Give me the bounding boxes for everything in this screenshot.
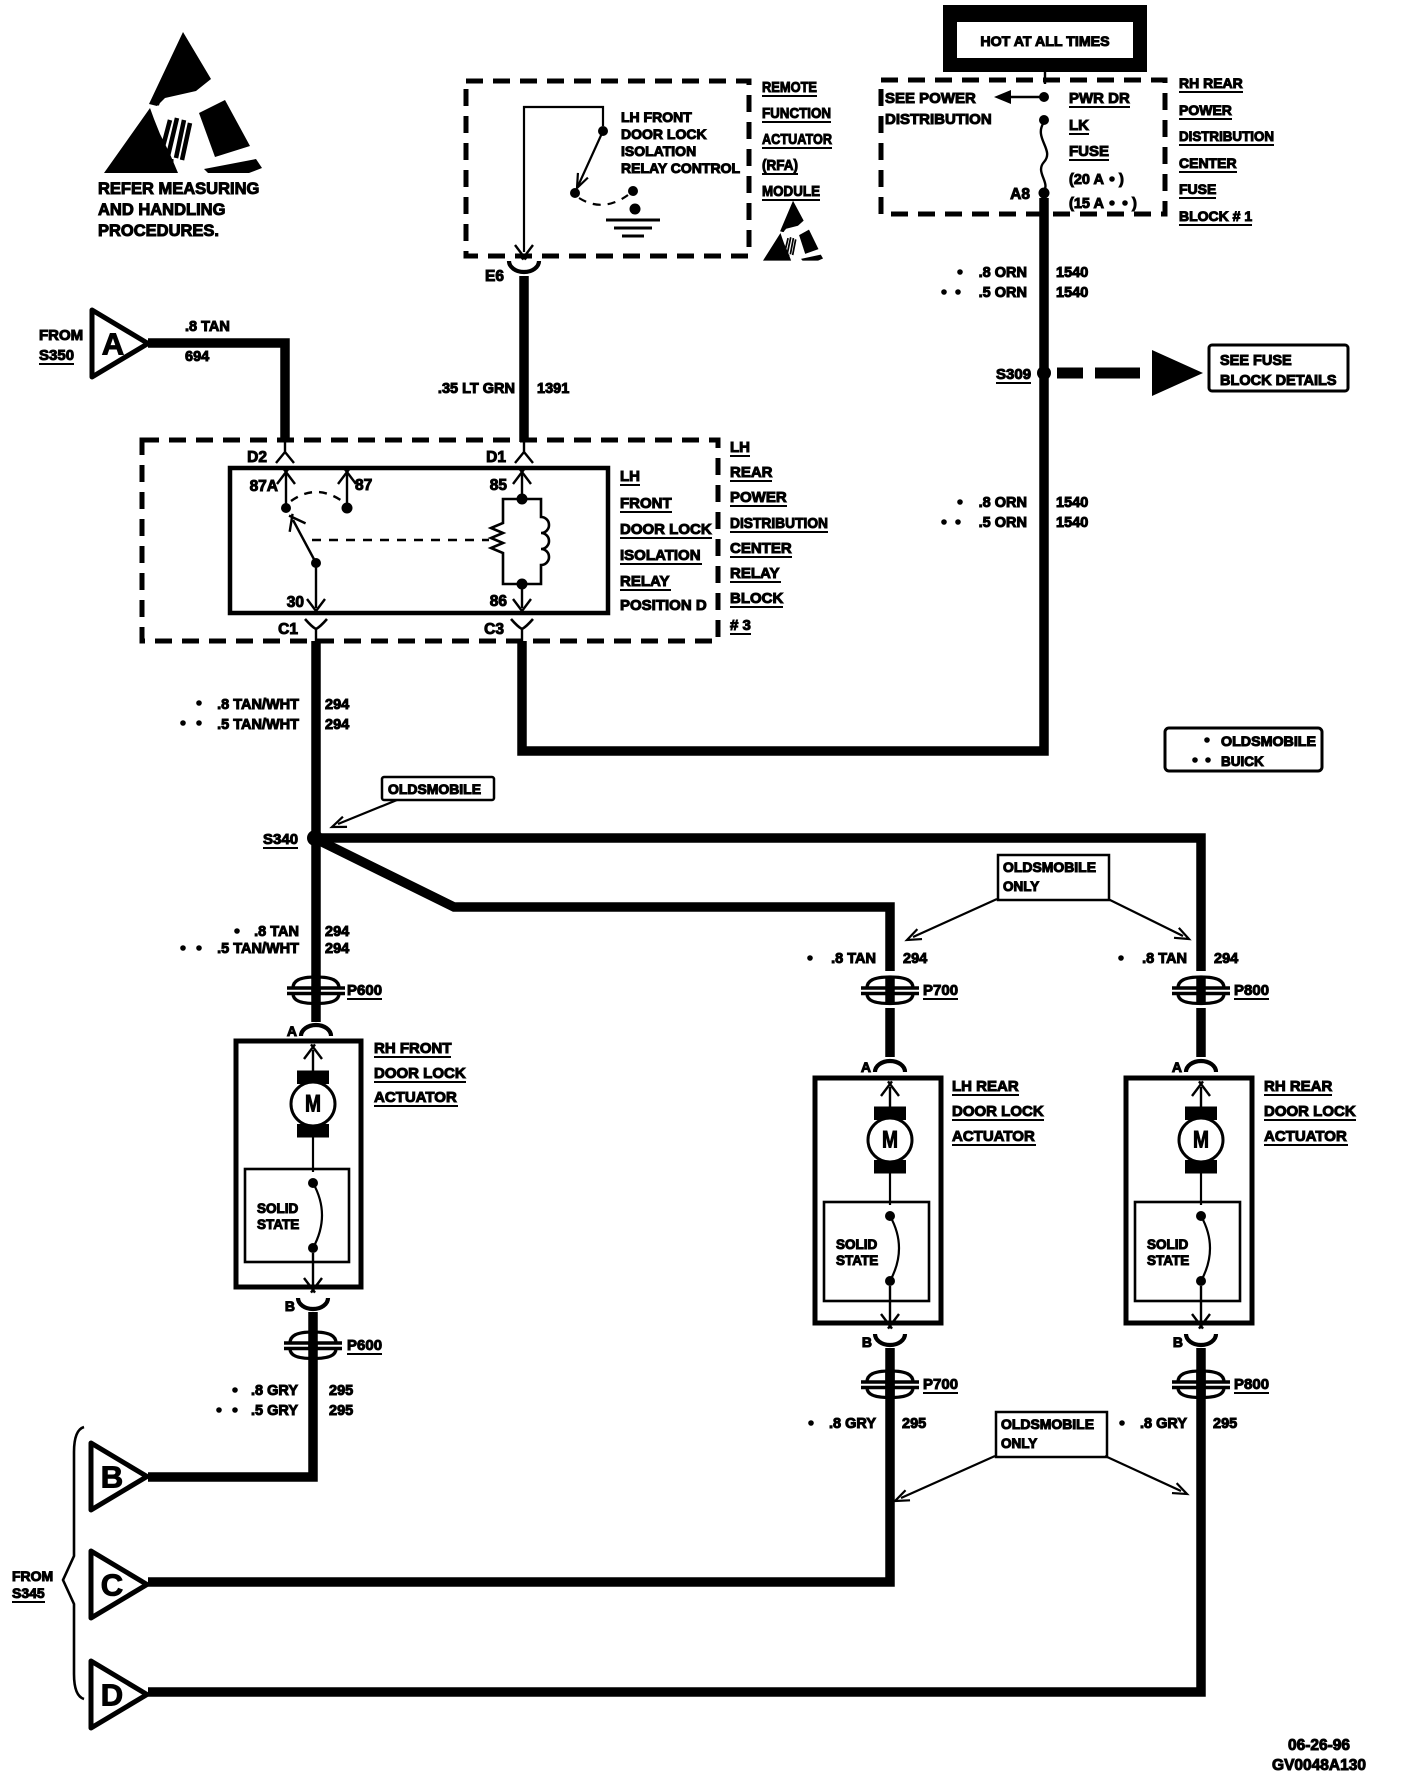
svg-text:BUICK: BUICK (1221, 754, 1264, 769)
svg-text:FRONT: FRONT (620, 495, 672, 512)
svg-text:.8 TAN/WHT: .8 TAN/WHT (217, 697, 299, 713)
RH rear door lock actuator box (1126, 1078, 1252, 1323)
svg-text:(15 A: (15 A (1069, 196, 1104, 212)
svg-text:295: 295 (902, 1416, 926, 1432)
pin C1 cup (305, 619, 327, 629)
svg-text:PROCEDURES.: PROCEDURES. (98, 222, 219, 240)
svg-text:DOOR LOCK: DOOR LOCK (1264, 1103, 1356, 1120)
wire motor to solid state (312, 1136, 314, 1172)
svg-text:.5 GRY: .5 GRY (251, 1403, 298, 1419)
svg-text:30: 30 (287, 594, 304, 611)
svg-text:P600: P600 (347, 1337, 382, 1354)
connector P800 (upper) (1172, 977, 1230, 1004)
svg-text:PWR DR: PWR DR (1069, 90, 1130, 107)
svg-text:1540: 1540 (1056, 285, 1088, 301)
svg-text:RH REAR: RH REAR (1264, 1078, 1333, 1095)
svg-text:): ) (1119, 172, 1124, 188)
connector P700 (upper) (861, 977, 919, 1004)
pin A arrow (LH rear) (889, 1087, 891, 1107)
svg-text:SOLID: SOLID (1147, 1237, 1189, 1252)
svg-text:B: B (1173, 1334, 1183, 1350)
svg-text:.5 ORN: .5 ORN (979, 515, 1027, 531)
svg-text:ONLY: ONLY (1003, 879, 1039, 894)
svg-text:C1: C1 (278, 621, 298, 638)
value labels .8 TAN 294 (below S340) (234, 928, 240, 934)
svg-text:.5 ORN: .5 ORN (979, 285, 1027, 301)
solid state box (RH front) (245, 1169, 349, 1262)
connector E6 arrowhead (515, 245, 533, 260)
svg-text:ACTUATOR: ACTUATOR (1264, 1128, 1347, 1145)
wire B to P600 lower to connector B (.8 GRY 295) (148, 1312, 313, 1477)
RFA dashed link curve (579, 195, 628, 205)
svg-text:ACTUATOR: ACTUATOR (374, 1089, 457, 1106)
contact dot 87A (281, 503, 291, 513)
svg-text:SOLID: SOLID (257, 1201, 299, 1216)
svg-text:.8 ORN: .8 ORN (979, 495, 1027, 511)
wire A to relay pin D2 (.8 TAN 694) (148, 343, 285, 442)
connector D triangle (91, 1661, 147, 1728)
svg-text:S340: S340 (263, 831, 298, 848)
svg-text:.8 TAN: .8 TAN (1142, 951, 1187, 967)
svg-text:P800: P800 (1234, 1376, 1269, 1393)
svg-text:M: M (882, 1127, 898, 1154)
svg-text:ISOLATION: ISOLATION (621, 143, 696, 159)
relay block dashed box (142, 440, 718, 641)
svg-text:86: 86 (490, 593, 508, 610)
svg-text:SEE FUSE: SEE FUSE (1220, 353, 1292, 369)
relay coil (517, 494, 528, 505)
svg-text:LH FRONT: LH FRONT (621, 109, 692, 125)
value label .8 TAN 294 (RH rear) (1118, 955, 1124, 961)
solid state box (LH rear) (824, 1202, 929, 1301)
callout arrows (upper) (913, 899, 997, 937)
wire RH rear B to connector D (148, 1348, 1201, 1692)
RFA switch contact dot (top) (598, 126, 608, 136)
dashed mechanical link (312, 539, 489, 541)
wire S340 branch to P800/RH rear (294) (315, 838, 1201, 971)
svg-text:1540: 1540 (1056, 515, 1088, 531)
svg-text:A: A (287, 1023, 297, 1039)
svg-text:LH REAR: LH REAR (952, 1078, 1019, 1095)
svg-text:M: M (305, 1091, 321, 1118)
node dot (tap) (1039, 92, 1049, 102)
svg-text:.8 TAN: .8 TAN (185, 319, 230, 335)
svg-text:E6: E6 (485, 268, 504, 285)
svg-text:295: 295 (1213, 1416, 1237, 1432)
value labels .8 TAN/WHT 294 (196, 700, 202, 706)
svg-text:REAR: REAR (730, 464, 773, 481)
connector P800 (lower) (1172, 1371, 1230, 1398)
connector P600 (upper) (287, 977, 345, 1004)
svg-text:POWER: POWER (1179, 102, 1232, 118)
svg-text:295: 295 (329, 1403, 353, 1419)
svg-text:FROM: FROM (12, 1568, 53, 1584)
svg-text:.8 TAN: .8 TAN (254, 924, 299, 940)
relay solid box (LH front door lock isolation relay) (230, 468, 608, 613)
svg-text:S309: S309 (996, 366, 1031, 383)
svg-text:REFER MEASURING: REFER MEASURING (98, 180, 259, 198)
value label .8 GRY 295 (RH rear) (1119, 1420, 1125, 1426)
svg-text:.8 ORN: .8 ORN (979, 265, 1027, 281)
svg-text:DOOR LOCK: DOOR LOCK (620, 521, 712, 538)
svg-text:C: C (101, 1568, 123, 1603)
pin B arrow (RH front) (312, 1253, 314, 1287)
motor M (RH rear) (1179, 1107, 1223, 1173)
pin A cup (LH rear) (875, 1061, 905, 1072)
svg-text:REMOTE: REMOTE (762, 79, 817, 96)
value labels .8 ORN / .5 ORN 1540 (lower) (957, 499, 963, 505)
svg-text:LH: LH (730, 439, 750, 456)
connector P600 (lower) (284, 1332, 342, 1359)
pin 86 arrow (521, 589, 523, 608)
RFA module dashed box (466, 81, 749, 256)
svg-text:STATE: STATE (1147, 1253, 1189, 1268)
solid state dots and arc (RH rear) (1196, 1211, 1206, 1221)
svg-text:DISTRIBUTION: DISTRIBUTION (1179, 128, 1274, 144)
dashed arrow to fuse block details (1057, 368, 1083, 379)
svg-text:DISTRIBUTION: DISTRIBUTION (885, 111, 992, 128)
solid state box (RH rear) (1135, 1202, 1240, 1301)
OLDSMOBILE ONLY box (lower) (996, 1412, 1107, 1457)
svg-text:C3: C3 (484, 621, 504, 638)
svg-text:P700: P700 (923, 982, 958, 999)
svg-text:HOT AT ALL TIMES: HOT AT ALL TIMES (980, 34, 1109, 50)
node dot (fuse top) (1039, 115, 1049, 125)
solid state dots and arc (LH rear) (885, 1211, 895, 1221)
svg-text:STATE: STATE (257, 1217, 299, 1232)
RH front door lock actuator box (236, 1041, 361, 1287)
contact dot 87 (342, 503, 353, 514)
svg-text:1540: 1540 (1056, 265, 1088, 281)
svg-text:P700: P700 (923, 1376, 958, 1393)
pin D2 (birdfoot) (276, 442, 294, 463)
OLDSMOBILE ONLY box (upper) (998, 855, 1109, 900)
wire S340 diagonal branch to P700/LH rear (294) (318, 840, 890, 971)
ESD warning symbol (hand in triangle) (104, 32, 262, 173)
svg-text:GV0048A130: GV0048A130 (1272, 1757, 1366, 1774)
svg-text:294: 294 (903, 951, 927, 967)
pin B arrow (LH rear) (889, 1286, 891, 1323)
svg-text:.35 LT GRN: .35 LT GRN (438, 381, 515, 397)
legend box OLDSMOBILE / BUICK (1165, 728, 1322, 771)
relay armature (position D) (293, 520, 316, 563)
svg-text:294: 294 (325, 717, 349, 733)
svg-text:295: 295 (329, 1383, 353, 1399)
svg-text:ACTUATOR: ACTUATOR (762, 131, 832, 148)
svg-text:OLDSMOBILE: OLDSMOBILE (1003, 860, 1096, 875)
LH rear door lock actuator box (815, 1078, 941, 1323)
svg-text:DOOR LOCK: DOOR LOCK (621, 126, 707, 142)
svg-text:SEE POWER: SEE POWER (885, 90, 976, 107)
svg-text:D2: D2 (247, 449, 267, 466)
svg-text:# 3: # 3 (730, 617, 751, 634)
svg-text:ONLY: ONLY (1001, 1436, 1037, 1451)
svg-text:.5 TAN/WHT: .5 TAN/WHT (217, 717, 299, 733)
pin 87 arrow (346, 474, 348, 504)
svg-text:AND HANDLING: AND HANDLING (98, 201, 225, 219)
pin 85 arrow (521, 474, 523, 495)
RFA switch armature arrow (578, 131, 603, 186)
wire C1 to S340 to P600 (.8 TAN/WHT 294) (311, 641, 321, 1022)
svg-text:B: B (862, 1334, 872, 1350)
svg-text:294: 294 (325, 697, 349, 713)
fuse PWR DR LK (wavy element) (1041, 122, 1047, 191)
svg-text:RH FRONT: RH FRONT (374, 1040, 452, 1057)
brace (63, 1427, 84, 1699)
svg-text:M: M (1193, 1127, 1209, 1154)
svg-text:SOLID: SOLID (836, 1237, 878, 1252)
pin A8 dot (1039, 188, 1050, 199)
svg-text:1391: 1391 (537, 381, 569, 397)
svg-text:RELAY CONTROL: RELAY CONTROL (621, 160, 740, 176)
pivot to pin 30 (315, 563, 317, 608)
connector B triangle (91, 1443, 147, 1510)
svg-text:.8 TAN: .8 TAN (831, 951, 876, 967)
svg-text:87: 87 (355, 477, 372, 494)
connector A triangle (92, 310, 148, 377)
svg-text:A: A (1172, 1059, 1182, 1075)
HOT AT ALL TIMES banner (943, 5, 1147, 72)
svg-text:LK: LK (1069, 117, 1089, 134)
motor M (RH front) (291, 1071, 335, 1137)
svg-text:CENTER: CENTER (1179, 155, 1237, 171)
box SEE FUSE BLOCK DETAILS (1209, 345, 1348, 391)
svg-text:RELAY: RELAY (620, 573, 669, 590)
svg-text:.8 GRY: .8 GRY (829, 1416, 876, 1432)
splice S309 (1037, 366, 1051, 380)
svg-text:FROM: FROM (39, 327, 83, 344)
svg-text:BLOCK # 1: BLOCK # 1 (1179, 208, 1252, 224)
value labels .8 GRY 295 (232, 1387, 238, 1393)
svg-text:(20 A: (20 A (1069, 172, 1104, 188)
value label .8 GRY 295 (LH rear) (808, 1420, 814, 1426)
pin 87A arrow (285, 474, 287, 504)
pin B cup (RH front) (298, 1298, 328, 1309)
svg-text:OLDSMOBILE: OLDSMOBILE (388, 782, 481, 797)
svg-text:RH REAR: RH REAR (1179, 75, 1243, 91)
armature pivot dot (311, 558, 321, 568)
svg-text:BLOCK DETAILS: BLOCK DETAILS (1220, 373, 1337, 389)
connector E6 cup (509, 261, 539, 272)
dashed position arc 87A-87 (291, 492, 342, 501)
svg-text:694: 694 (185, 349, 209, 365)
svg-text:RELAY: RELAY (730, 565, 779, 582)
wire P800 to actuator A (RH rear) (1196, 1008, 1206, 1057)
svg-text:A8: A8 (1010, 186, 1030, 203)
pin A cup (RH front) (301, 1025, 331, 1036)
svg-text:FUSE: FUSE (1179, 181, 1216, 197)
svg-text:D1: D1 (486, 449, 506, 466)
svg-text:ACTUATOR: ACTUATOR (952, 1128, 1035, 1145)
connector C triangle (91, 1551, 147, 1618)
svg-text:87A: 87A (250, 478, 278, 495)
splice S340 (307, 830, 323, 846)
svg-text:06-26-96: 06-26-96 (1288, 1737, 1350, 1754)
svg-text:(RFA): (RFA) (762, 157, 798, 174)
value label .8 TAN 294 (LH rear) (807, 955, 813, 961)
svg-text:DOOR LOCK: DOOR LOCK (952, 1103, 1044, 1120)
svg-text:S350: S350 (39, 347, 74, 364)
wire A8 to S309 to relay C3 (.8 ORN 1540) (522, 198, 1044, 751)
RH rear power distribution center fuse block dashed box (881, 80, 1165, 214)
pin A arrow (RH front) (312, 1050, 314, 1071)
svg-text:S345: S345 (12, 1585, 45, 1601)
ground (RFA module) (606, 220, 660, 236)
svg-text:POWER: POWER (730, 489, 787, 506)
small ESD symbol (RFA) (763, 201, 823, 261)
svg-text:A: A (102, 327, 124, 362)
svg-text:B: B (101, 1460, 123, 1495)
svg-text:294: 294 (325, 941, 349, 957)
pin A cup (RH rear) (1186, 1061, 1216, 1072)
svg-text:294: 294 (1214, 951, 1238, 967)
pin B cup (LH rear) (875, 1334, 905, 1345)
svg-text:.8 GRY: .8 GRY (1140, 1416, 1187, 1432)
solid state contact dots and arc (308, 1178, 318, 1188)
pin 30 arrow (307, 599, 325, 614)
svg-text:P800: P800 (1234, 982, 1269, 999)
see power tap arrow (1008, 96, 1041, 98)
svg-text:.5 TAN/WHT: .5 TAN/WHT (217, 941, 299, 957)
pin B arrow (RH rear) (1200, 1286, 1202, 1323)
pin D1 (birdfoot) (515, 442, 533, 463)
RFA contact dots near ground (628, 186, 638, 196)
value labels .8 ORN / .5 ORN 1540 (upper) (957, 269, 963, 275)
svg-text:ISOLATION: ISOLATION (620, 547, 701, 564)
OLDSMOBILE callout box (382, 777, 494, 800)
svg-text:CENTER: CENTER (730, 540, 792, 557)
svg-text:294: 294 (325, 924, 349, 940)
connector P700 (lower) (861, 1371, 919, 1398)
OLDSMOBILE callout arrow (338, 800, 397, 824)
svg-text:DOOR LOCK: DOOR LOCK (374, 1065, 466, 1082)
svg-text:P600: P600 (347, 982, 382, 999)
svg-text:B: B (285, 1298, 295, 1314)
RFA internal driver wire (524, 107, 603, 252)
svg-text:MODULE: MODULE (762, 183, 820, 200)
svg-text:OLDSMOBILE: OLDSMOBILE (1221, 734, 1316, 749)
motor M (LH rear) (868, 1107, 912, 1173)
svg-text:): ) (1132, 196, 1137, 212)
svg-text:STATE: STATE (836, 1253, 878, 1268)
wire E6 to relay pin D1 (.35 LT GRN 1391) (519, 276, 529, 442)
wire LH rear B to connector C (148, 1348, 890, 1582)
svg-text:.8 GRY: .8 GRY (251, 1383, 298, 1399)
wire motor to solid state (RH rear) (1200, 1172, 1202, 1205)
pin C3 cup (511, 619, 533, 629)
svg-text:1540: 1540 (1056, 495, 1088, 511)
svg-text:POSITION D: POSITION D (620, 597, 707, 614)
wire motor to solid state (LH rear) (889, 1172, 891, 1205)
svg-text:DISTRIBUTION: DISTRIBUTION (730, 515, 828, 532)
svg-text:FUNCTION: FUNCTION (762, 105, 831, 122)
svg-text:LH: LH (620, 468, 640, 485)
RFA switch pivot dot (570, 188, 580, 198)
svg-text:D: D (101, 1678, 123, 1713)
wire P700 to actuator A (LH rear) (885, 1008, 895, 1057)
svg-text:BLOCK: BLOCK (730, 590, 783, 607)
pin B cup (RH rear) (1186, 1334, 1216, 1345)
callout arrows (lower) (901, 1456, 995, 1498)
svg-text:A: A (861, 1059, 871, 1075)
wire banner to fuse block (1044, 72, 1046, 84)
pin A arrow (RH rear) (1200, 1087, 1202, 1107)
svg-text:FUSE: FUSE (1069, 143, 1109, 160)
svg-text:85: 85 (490, 477, 508, 494)
svg-text:OLDSMOBILE: OLDSMOBILE (1001, 1417, 1094, 1432)
